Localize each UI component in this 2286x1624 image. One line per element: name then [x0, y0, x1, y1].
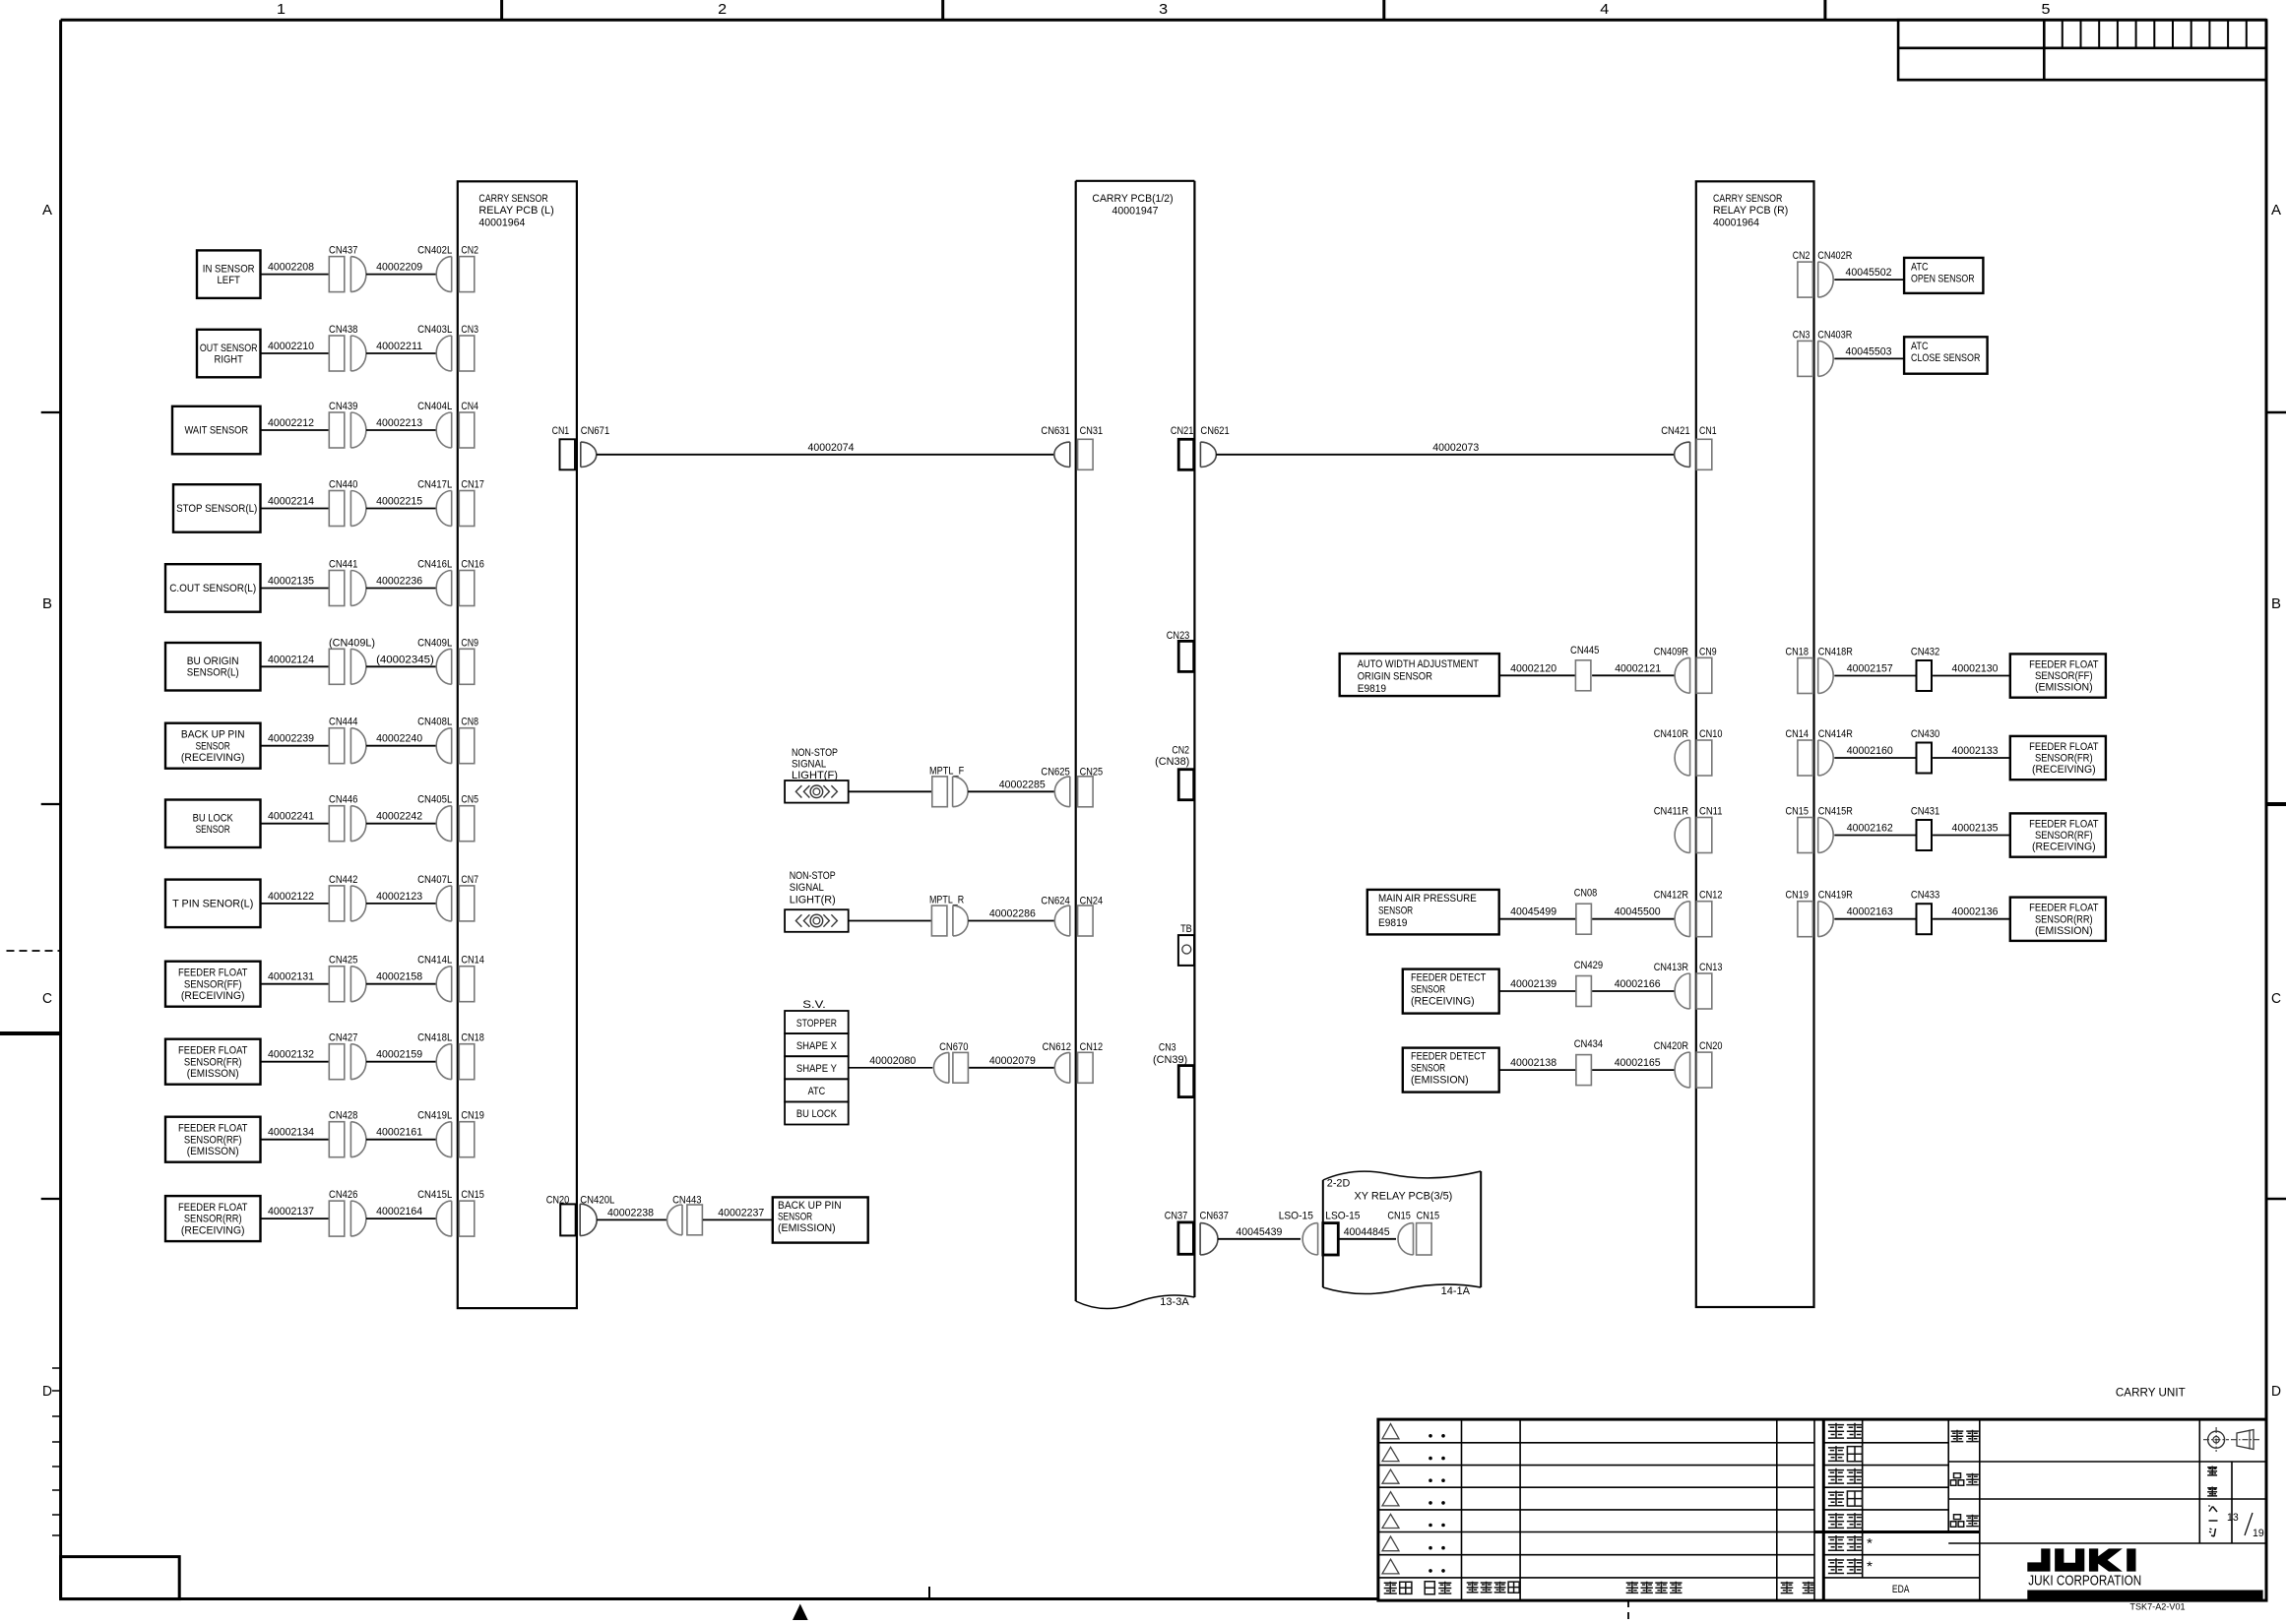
- svg-text:A: A: [2271, 202, 2281, 219]
- svg-text:CN19: CN19: [1786, 890, 1810, 902]
- svg-text:40002138: 40002138: [1510, 1057, 1556, 1069]
- svg-text:CN3: CN3: [1793, 329, 1810, 341]
- svg-text:40002240: 40002240: [376, 733, 422, 745]
- svg-text:CN3: CN3: [461, 324, 478, 336]
- svg-text:BACK UP PIN: BACK UP PIN: [778, 1200, 842, 1212]
- svg-text:LIGHT(R): LIGHT(R): [790, 895, 836, 906]
- svg-text:D: D: [2271, 1383, 2281, 1400]
- svg-text:40002241: 40002241: [268, 811, 314, 823]
- svg-text:CN418L: CN418L: [417, 1032, 452, 1044]
- svg-text:40001964: 40001964: [478, 218, 525, 229]
- svg-text:CN637: CN637: [1200, 1211, 1229, 1222]
- svg-text:BACK UP PIN: BACK UP PIN: [181, 729, 245, 741]
- svg-text:40002238: 40002238: [607, 1207, 654, 1218]
- svg-text:C: C: [2271, 990, 2281, 1007]
- svg-text:MAIN AIR PRESSURE: MAIN AIR PRESSURE: [1378, 893, 1477, 905]
- svg-text:CN419L: CN419L: [417, 1110, 452, 1122]
- svg-text:(RECEIVING): (RECEIVING): [181, 1224, 245, 1236]
- svg-text:FEEDER FLOAT: FEEDER FLOAT: [2029, 819, 2099, 831]
- svg-text:OUT SENSOR: OUT SENSOR: [200, 343, 258, 354]
- svg-text:40045503: 40045503: [1846, 345, 1892, 357]
- svg-text:CN18: CN18: [461, 1032, 484, 1044]
- svg-text:JUKI CORPORATION: JUKI CORPORATION: [2028, 1572, 2141, 1589]
- svg-text:CN441: CN441: [329, 559, 357, 571]
- svg-text:SENSOR(RR): SENSOR(RR): [184, 1214, 242, 1225]
- svg-text:CN14: CN14: [1786, 728, 1810, 740]
- svg-text:ATC: ATC: [808, 1086, 826, 1097]
- svg-text:(RECEIVING): (RECEIVING): [181, 990, 245, 1002]
- svg-text:CN670: CN670: [939, 1041, 968, 1053]
- svg-text:CN433: CN433: [1911, 890, 1939, 902]
- svg-text:CN11: CN11: [1699, 806, 1723, 818]
- svg-text:CN409L: CN409L: [417, 637, 452, 649]
- svg-text:CN24: CN24: [1080, 896, 1104, 907]
- svg-text:5: 5: [2042, 1, 2051, 18]
- svg-text:B: B: [2271, 595, 2281, 612]
- svg-text:40002134: 40002134: [268, 1127, 314, 1139]
- svg-text:XY RELAY PCB(3/5): XY RELAY PCB(3/5): [1355, 1191, 1453, 1203]
- svg-text:STOPPER: STOPPER: [796, 1018, 837, 1030]
- svg-text:40002242: 40002242: [376, 811, 422, 823]
- svg-text:40045500: 40045500: [1615, 906, 1661, 918]
- svg-text:40002208: 40002208: [268, 262, 314, 274]
- svg-text:(40002345): (40002345): [376, 654, 434, 665]
- svg-text:LSO-15: LSO-15: [1279, 1211, 1313, 1222]
- svg-text:B: B: [42, 595, 52, 612]
- svg-text:40045499: 40045499: [1510, 906, 1556, 918]
- svg-text:CN420L: CN420L: [580, 1194, 614, 1206]
- svg-text:CN3: CN3: [1159, 1042, 1176, 1054]
- svg-text:E9819: E9819: [1378, 917, 1407, 929]
- svg-text:40002166: 40002166: [1615, 978, 1661, 990]
- svg-text:(EMISSION): (EMISSION): [1411, 1075, 1469, 1087]
- svg-text:CN425: CN425: [329, 955, 357, 967]
- svg-text:40044845: 40044845: [1344, 1226, 1390, 1238]
- svg-text:LEFT: LEFT: [217, 275, 240, 286]
- svg-text:CN443: CN443: [672, 1194, 701, 1206]
- svg-text:FEEDER FLOAT: FEEDER FLOAT: [178, 1123, 248, 1135]
- svg-text:CN434: CN434: [1574, 1038, 1603, 1050]
- svg-text:TB: TB: [1180, 923, 1192, 935]
- svg-text:40002073: 40002073: [1432, 442, 1479, 454]
- svg-text:13-3A: 13-3A: [1160, 1296, 1189, 1308]
- svg-text:CN20: CN20: [546, 1194, 570, 1206]
- svg-text:A: A: [42, 202, 52, 219]
- svg-text:40002130: 40002130: [1952, 663, 1999, 675]
- svg-text:SENSOR(L): SENSOR(L): [187, 667, 239, 679]
- svg-text:40002133: 40002133: [1952, 745, 1999, 757]
- svg-text:CARRY PCB(1/2): CARRY PCB(1/2): [1092, 193, 1173, 205]
- svg-text:40002122: 40002122: [268, 891, 314, 903]
- svg-text:(EMISSON): (EMISSON): [187, 1146, 239, 1157]
- svg-text:CN416L: CN416L: [417, 559, 452, 571]
- svg-text:*: *: [1867, 1558, 1873, 1574]
- svg-text:CN19: CN19: [461, 1110, 484, 1122]
- svg-text:CN08: CN08: [1574, 888, 1598, 900]
- svg-text:14-1A: 14-1A: [1441, 1285, 1471, 1297]
- svg-text:CN1: CN1: [552, 425, 570, 437]
- svg-text:40002079: 40002079: [989, 1055, 1036, 1067]
- svg-text:S.V.: S.V.: [802, 999, 826, 1011]
- svg-text:CN410R: CN410R: [1654, 728, 1688, 740]
- svg-text:40002160: 40002160: [1847, 745, 1893, 757]
- svg-text:CN412R: CN412R: [1654, 890, 1688, 902]
- svg-text:SENSOR(FR): SENSOR(FR): [2035, 753, 2093, 765]
- svg-text:(EMISSION): (EMISSION): [2035, 682, 2093, 694]
- svg-text:FEEDER FLOAT: FEEDER FLOAT: [2029, 741, 2099, 753]
- svg-text:SHAPE X: SHAPE X: [796, 1040, 838, 1052]
- svg-text:CN414L: CN414L: [417, 955, 452, 967]
- svg-text:CN402R: CN402R: [1817, 250, 1852, 262]
- svg-text:CN438: CN438: [329, 324, 357, 336]
- svg-text:40002136: 40002136: [1952, 906, 1999, 918]
- svg-text:CN2: CN2: [461, 245, 478, 257]
- svg-text:CN418R: CN418R: [1818, 647, 1853, 658]
- svg-text:SENSOR: SENSOR: [1411, 1063, 1445, 1075]
- svg-text:CN409R: CN409R: [1654, 646, 1688, 657]
- svg-text:CN612: CN612: [1043, 1041, 1071, 1053]
- svg-text:LSO-15: LSO-15: [1325, 1211, 1360, 1222]
- svg-text:(EMISSION): (EMISSION): [778, 1222, 836, 1234]
- svg-text:40002131: 40002131: [268, 971, 314, 983]
- svg-text:BU ORIGIN: BU ORIGIN: [187, 656, 239, 667]
- svg-text:(RECEIVING): (RECEIVING): [2032, 764, 2096, 776]
- svg-text:CN15: CN15: [461, 1189, 484, 1201]
- svg-text:FEEDER DETECT: FEEDER DETECT: [1411, 1051, 1487, 1063]
- svg-text:CN12: CN12: [1699, 890, 1723, 902]
- svg-text:40001964: 40001964: [1713, 218, 1759, 229]
- svg-text:SENSOR: SENSOR: [1378, 906, 1413, 917]
- svg-text:CN631: CN631: [1041, 425, 1069, 437]
- svg-text:CN2: CN2: [1793, 250, 1810, 262]
- svg-text:40002157: 40002157: [1847, 663, 1893, 675]
- svg-text:CN15: CN15: [1786, 806, 1810, 818]
- svg-text:NON-STOP: NON-STOP: [790, 870, 836, 882]
- svg-text:CN16: CN16: [461, 559, 484, 571]
- svg-text:40002137: 40002137: [268, 1206, 314, 1218]
- svg-text:40002212: 40002212: [268, 417, 314, 429]
- svg-text:CARRY SENSOR: CARRY SENSOR: [478, 193, 547, 205]
- svg-text:FEEDER DETECT: FEEDER DETECT: [1411, 972, 1487, 984]
- svg-text:OPEN SENSOR: OPEN SENSOR: [1911, 274, 1975, 285]
- svg-text:CN439: CN439: [329, 401, 357, 412]
- svg-text:40002236: 40002236: [376, 576, 422, 588]
- svg-text:(CN409L): (CN409L): [329, 637, 375, 649]
- svg-text:CN419R: CN419R: [1818, 890, 1853, 902]
- svg-text:(CN38): (CN38): [1155, 756, 1189, 768]
- svg-text:NON-STOP: NON-STOP: [792, 747, 838, 759]
- svg-text:CN440: CN440: [329, 479, 357, 491]
- svg-text:CN404L: CN404L: [417, 401, 452, 412]
- svg-text:CN9: CN9: [1699, 646, 1717, 657]
- svg-text:CN403R: CN403R: [1817, 329, 1852, 341]
- svg-text:40002164: 40002164: [376, 1206, 422, 1218]
- svg-text:CN426: CN426: [329, 1189, 357, 1201]
- svg-text:C.OUT SENSOR(L): C.OUT SENSOR(L): [169, 583, 256, 594]
- svg-text:CN8: CN8: [461, 717, 478, 728]
- svg-text:40002285: 40002285: [999, 779, 1046, 790]
- svg-text:CN23: CN23: [1167, 630, 1190, 642]
- svg-text:SENSOR(RR): SENSOR(RR): [2035, 913, 2093, 925]
- svg-text:ATC: ATC: [1911, 262, 1929, 274]
- svg-text:40002074: 40002074: [808, 442, 855, 454]
- svg-text:40002213: 40002213: [376, 417, 422, 429]
- svg-text:40002163: 40002163: [1847, 906, 1893, 918]
- svg-text:SENSOR(FF): SENSOR(FF): [184, 978, 242, 990]
- svg-text:IN SENSOR: IN SENSOR: [203, 263, 255, 275]
- svg-text:40002239: 40002239: [268, 733, 314, 745]
- svg-text:(EMISSION): (EMISSION): [2035, 925, 2093, 937]
- svg-text:1: 1: [277, 1, 286, 18]
- svg-text:TSK7-A2-V01: TSK7-A2-V01: [2129, 1601, 2185, 1611]
- svg-text:40002161: 40002161: [376, 1127, 422, 1139]
- svg-text:FEEDER FLOAT: FEEDER FLOAT: [2029, 903, 2099, 914]
- svg-text:STOP SENSOR(L): STOP SENSOR(L): [176, 503, 257, 515]
- svg-text:(RECEIVING): (RECEIVING): [181, 752, 245, 764]
- svg-text:(RECEIVING): (RECEIVING): [1411, 996, 1475, 1008]
- svg-text:CN437: CN437: [329, 245, 357, 257]
- svg-text:2: 2: [718, 1, 727, 18]
- svg-text:40045439: 40045439: [1236, 1226, 1282, 1238]
- svg-text:CN671: CN671: [581, 425, 609, 437]
- svg-text:AUTO WIDTH ADJUSTMENT: AUTO WIDTH ADJUSTMENT: [1358, 658, 1480, 670]
- svg-text:40002162: 40002162: [1847, 823, 1893, 835]
- svg-text:(CN39): (CN39): [1153, 1054, 1187, 1066]
- svg-text:CN2: CN2: [1172, 744, 1189, 756]
- svg-text:CN624: CN624: [1041, 896, 1069, 907]
- svg-text:CN445: CN445: [1570, 645, 1599, 656]
- svg-text:40002135: 40002135: [268, 576, 314, 588]
- svg-text:CN415R: CN415R: [1818, 806, 1853, 818]
- svg-text:2-2D: 2-2D: [1327, 1178, 1351, 1190]
- svg-text:RIGHT: RIGHT: [215, 353, 244, 365]
- svg-text:EDA: EDA: [1892, 1584, 1910, 1595]
- svg-text:40002210: 40002210: [268, 341, 314, 352]
- svg-text:CN413R: CN413R: [1654, 962, 1688, 973]
- svg-text:CN5: CN5: [461, 794, 478, 806]
- svg-text:CN17: CN17: [461, 479, 484, 491]
- svg-text:D: D: [42, 1383, 52, 1400]
- svg-text:CN407L: CN407L: [417, 874, 452, 886]
- svg-text:CN405L: CN405L: [417, 794, 452, 806]
- svg-text:*: *: [1867, 1535, 1873, 1551]
- svg-text:CN10: CN10: [1699, 728, 1723, 740]
- svg-text:BU LOCK: BU LOCK: [193, 813, 234, 825]
- svg-text:CARRY UNIT: CARRY UNIT: [2116, 1386, 2186, 1400]
- svg-text:MPTL_R: MPTL_R: [929, 895, 964, 906]
- svg-text:CN432: CN432: [1911, 647, 1939, 658]
- svg-text:40002124: 40002124: [268, 654, 314, 665]
- svg-text:RELAY PCB (R): RELAY PCB (R): [1713, 205, 1788, 217]
- svg-text:E9819: E9819: [1358, 683, 1386, 695]
- svg-text:CN20: CN20: [1699, 1040, 1723, 1052]
- svg-text:SENSOR: SENSOR: [196, 824, 230, 836]
- svg-text:40002120: 40002120: [1510, 662, 1556, 674]
- svg-text:CN15: CN15: [1387, 1211, 1411, 1222]
- svg-text:CN402L: CN402L: [417, 245, 452, 257]
- svg-text:CN417L: CN417L: [417, 479, 452, 491]
- svg-text:ORIGIN SENSOR: ORIGIN SENSOR: [1358, 670, 1432, 682]
- svg-text:40002121: 40002121: [1615, 662, 1661, 674]
- svg-text:40002080: 40002080: [869, 1055, 916, 1067]
- svg-text:40002139: 40002139: [1510, 978, 1556, 990]
- svg-text:40002214: 40002214: [268, 496, 314, 508]
- svg-text:CN15: CN15: [1417, 1211, 1440, 1222]
- svg-text:SENSOR: SENSOR: [196, 740, 230, 752]
- svg-text:CN408L: CN408L: [417, 717, 452, 728]
- svg-text:CN429: CN429: [1574, 960, 1603, 971]
- svg-text:CN446: CN446: [329, 794, 357, 806]
- svg-text:SENSOR(FR): SENSOR(FR): [184, 1056, 242, 1068]
- svg-text:CN25: CN25: [1080, 766, 1104, 778]
- svg-text:CN415L: CN415L: [417, 1189, 452, 1201]
- svg-text:ATC: ATC: [1911, 341, 1929, 352]
- svg-text:SENSOR(RF): SENSOR(RF): [184, 1134, 242, 1146]
- svg-text:CN430: CN430: [1911, 728, 1939, 740]
- svg-text:WAIT SENSOR: WAIT SENSOR: [185, 425, 249, 437]
- svg-text:FEEDER FLOAT: FEEDER FLOAT: [178, 968, 248, 979]
- svg-text:CN13: CN13: [1699, 962, 1723, 973]
- svg-text:CN442: CN442: [329, 874, 357, 886]
- svg-text:CARRY SENSOR: CARRY SENSOR: [1713, 193, 1782, 205]
- svg-text:FEEDER FLOAT: FEEDER FLOAT: [178, 1045, 248, 1057]
- svg-text:SENSOR: SENSOR: [1411, 984, 1445, 996]
- svg-text:13: 13: [2227, 1512, 2239, 1524]
- svg-text:CN420R: CN420R: [1654, 1040, 1688, 1052]
- svg-text:CN12: CN12: [1080, 1041, 1104, 1053]
- svg-text:FEEDER FLOAT: FEEDER FLOAT: [178, 1202, 248, 1214]
- svg-text:CN4: CN4: [461, 401, 478, 412]
- svg-text:SENSOR(FF): SENSOR(FF): [2035, 670, 2093, 682]
- svg-text:CN411R: CN411R: [1654, 806, 1688, 818]
- svg-text:CN9: CN9: [461, 637, 478, 649]
- svg-text:T PIN SENOR(L): T PIN SENOR(L): [172, 899, 253, 910]
- svg-text:RELAY PCB (L): RELAY PCB (L): [478, 205, 553, 217]
- svg-text:40002286: 40002286: [989, 908, 1036, 920]
- svg-text:40002211: 40002211: [376, 341, 422, 352]
- svg-text:CN21: CN21: [1171, 425, 1194, 437]
- svg-text:40002123: 40002123: [376, 891, 422, 903]
- svg-text:40001947: 40001947: [1112, 206, 1159, 218]
- svg-text:CN625: CN625: [1041, 766, 1069, 778]
- svg-text:FEEDER FLOAT: FEEDER FLOAT: [2029, 659, 2099, 671]
- svg-text:SIGNAL: SIGNAL: [792, 759, 826, 771]
- svg-text:BU LOCK: BU LOCK: [796, 1108, 838, 1120]
- svg-text:19: 19: [2253, 1528, 2264, 1539]
- svg-text:CN444: CN444: [329, 717, 357, 728]
- svg-text:CN621: CN621: [1200, 425, 1229, 437]
- svg-text:CN403L: CN403L: [417, 324, 452, 336]
- svg-text:40002215: 40002215: [376, 496, 422, 508]
- svg-text:C: C: [42, 990, 52, 1007]
- svg-text:CN18: CN18: [1786, 647, 1810, 658]
- svg-text:CN414R: CN414R: [1818, 728, 1853, 740]
- svg-text:MPTL_F: MPTL_F: [929, 766, 964, 778]
- svg-text:SHAPE Y: SHAPE Y: [796, 1063, 838, 1075]
- svg-text:CN7: CN7: [461, 874, 478, 886]
- svg-text:40002159: 40002159: [376, 1049, 422, 1061]
- svg-text:CN1: CN1: [1699, 425, 1717, 437]
- svg-text:40002209: 40002209: [376, 262, 422, 274]
- svg-text:40002237: 40002237: [718, 1207, 764, 1218]
- svg-text:40002132: 40002132: [268, 1049, 314, 1061]
- svg-text:40002165: 40002165: [1615, 1057, 1661, 1069]
- svg-text:CN37: CN37: [1165, 1211, 1188, 1222]
- svg-text:(RECEIVING): (RECEIVING): [2032, 842, 2096, 853]
- svg-text:4: 4: [1600, 1, 1609, 18]
- svg-text:3: 3: [1159, 1, 1168, 18]
- svg-text:CN421: CN421: [1661, 425, 1689, 437]
- svg-text:SENSOR: SENSOR: [778, 1212, 812, 1223]
- svg-text:CN427: CN427: [329, 1032, 357, 1044]
- svg-text:40002158: 40002158: [376, 971, 422, 983]
- svg-text:40002135: 40002135: [1952, 823, 1999, 835]
- svg-text:CLOSE SENSOR: CLOSE SENSOR: [1911, 352, 1980, 364]
- svg-text:CN31: CN31: [1080, 425, 1104, 437]
- svg-text:SIGNAL: SIGNAL: [790, 882, 824, 894]
- svg-text:40045502: 40045502: [1846, 267, 1892, 279]
- svg-text:SENSOR(RF): SENSOR(RF): [2035, 830, 2093, 842]
- svg-text:CN14: CN14: [461, 955, 484, 967]
- svg-text:CN431: CN431: [1911, 806, 1939, 818]
- svg-text:(EMISSON): (EMISSON): [187, 1068, 239, 1080]
- svg-text:CN428: CN428: [329, 1110, 357, 1122]
